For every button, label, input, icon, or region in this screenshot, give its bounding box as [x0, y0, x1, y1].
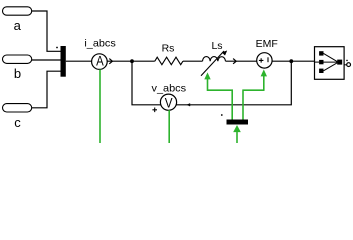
- green input arrow into demux bar: [233, 125, 241, 132]
- EMF controlled voltage source: [257, 53, 272, 68]
- svg-text:V: V: [165, 96, 174, 111]
- svg-text:EMF: EMF: [256, 38, 278, 50]
- svg-text:i_abcs: i_abcs: [84, 38, 115, 50]
- green arrowhead into Ls: [204, 72, 210, 79]
- svg-text:Ls: Ls: [211, 40, 222, 52]
- tiny dot above floating port: [346, 60, 348, 62]
- port a: [3, 7, 32, 15]
- wire EMF to output block: [272, 60, 314, 62]
- wire c to busbar: [32, 71, 61, 108]
- port c: [3, 104, 32, 112]
- svg-text:c: c: [14, 115, 21, 130]
- wire arrow on voltmeter wire: [188, 104, 191, 106]
- input squares: [319, 51, 323, 55]
- resistor Rs: [155, 57, 183, 64]
- combiner lines: [324, 53, 338, 70]
- svg-text:b: b: [14, 66, 21, 81]
- variable-arrow of Ls: [201, 51, 224, 76]
- stub to middle square: [315, 61, 320, 63]
- voltmeter v_abcs: [160, 94, 176, 110]
- floating port stub: [344, 64, 346, 66]
- wire arrow after inductor: [233, 59, 236, 64]
- green signal line to EMF control: [242, 76, 264, 120]
- green measurement signal from ammeter: [99, 69, 101, 143]
- inductor Ls (variable): [203, 57, 226, 62]
- wire ammeter to resistor: [107, 60, 155, 62]
- svg-text:Rs: Rs: [162, 42, 175, 54]
- wire junction down to voltmeter row: [176, 61, 291, 105]
- output square: [337, 60, 342, 65]
- green signal line to Ls control: [208, 79, 233, 120]
- wire busbar to ammeter: [66, 60, 92, 62]
- busbar node abc: [61, 46, 66, 77]
- plus sign of voltmeter: [152, 108, 157, 113]
- demux bar (bottom): [227, 120, 249, 125]
- svg-text:a: a: [14, 18, 22, 33]
- wire inductor to EMF: [226, 60, 257, 62]
- wire junction down to voltmeter row: [132, 61, 161, 105]
- wire arrow after ammeter: [109, 59, 112, 64]
- annotation dot near demux bar: [221, 114, 223, 116]
- wire a to busbar: [32, 11, 61, 51]
- floating port circle: [347, 63, 351, 67]
- annotation dot near busbar: [56, 47, 58, 49]
- wire b to busbar: [32, 59, 61, 61]
- wire resistor to inductor: [183, 60, 203, 62]
- port b: [3, 55, 32, 63]
- junction node at EMF output: [289, 59, 293, 63]
- svg-text:v_abcs: v_abcs: [152, 83, 187, 95]
- green measurement signal from voltmeter: [168, 110, 170, 143]
- svg-text:A: A: [96, 54, 104, 69]
- ammeter i_abcs: [92, 54, 108, 70]
- junction node: [130, 59, 134, 63]
- green arrowhead into EMF: [261, 69, 267, 76]
- output block (phase combiner): [315, 47, 345, 80]
